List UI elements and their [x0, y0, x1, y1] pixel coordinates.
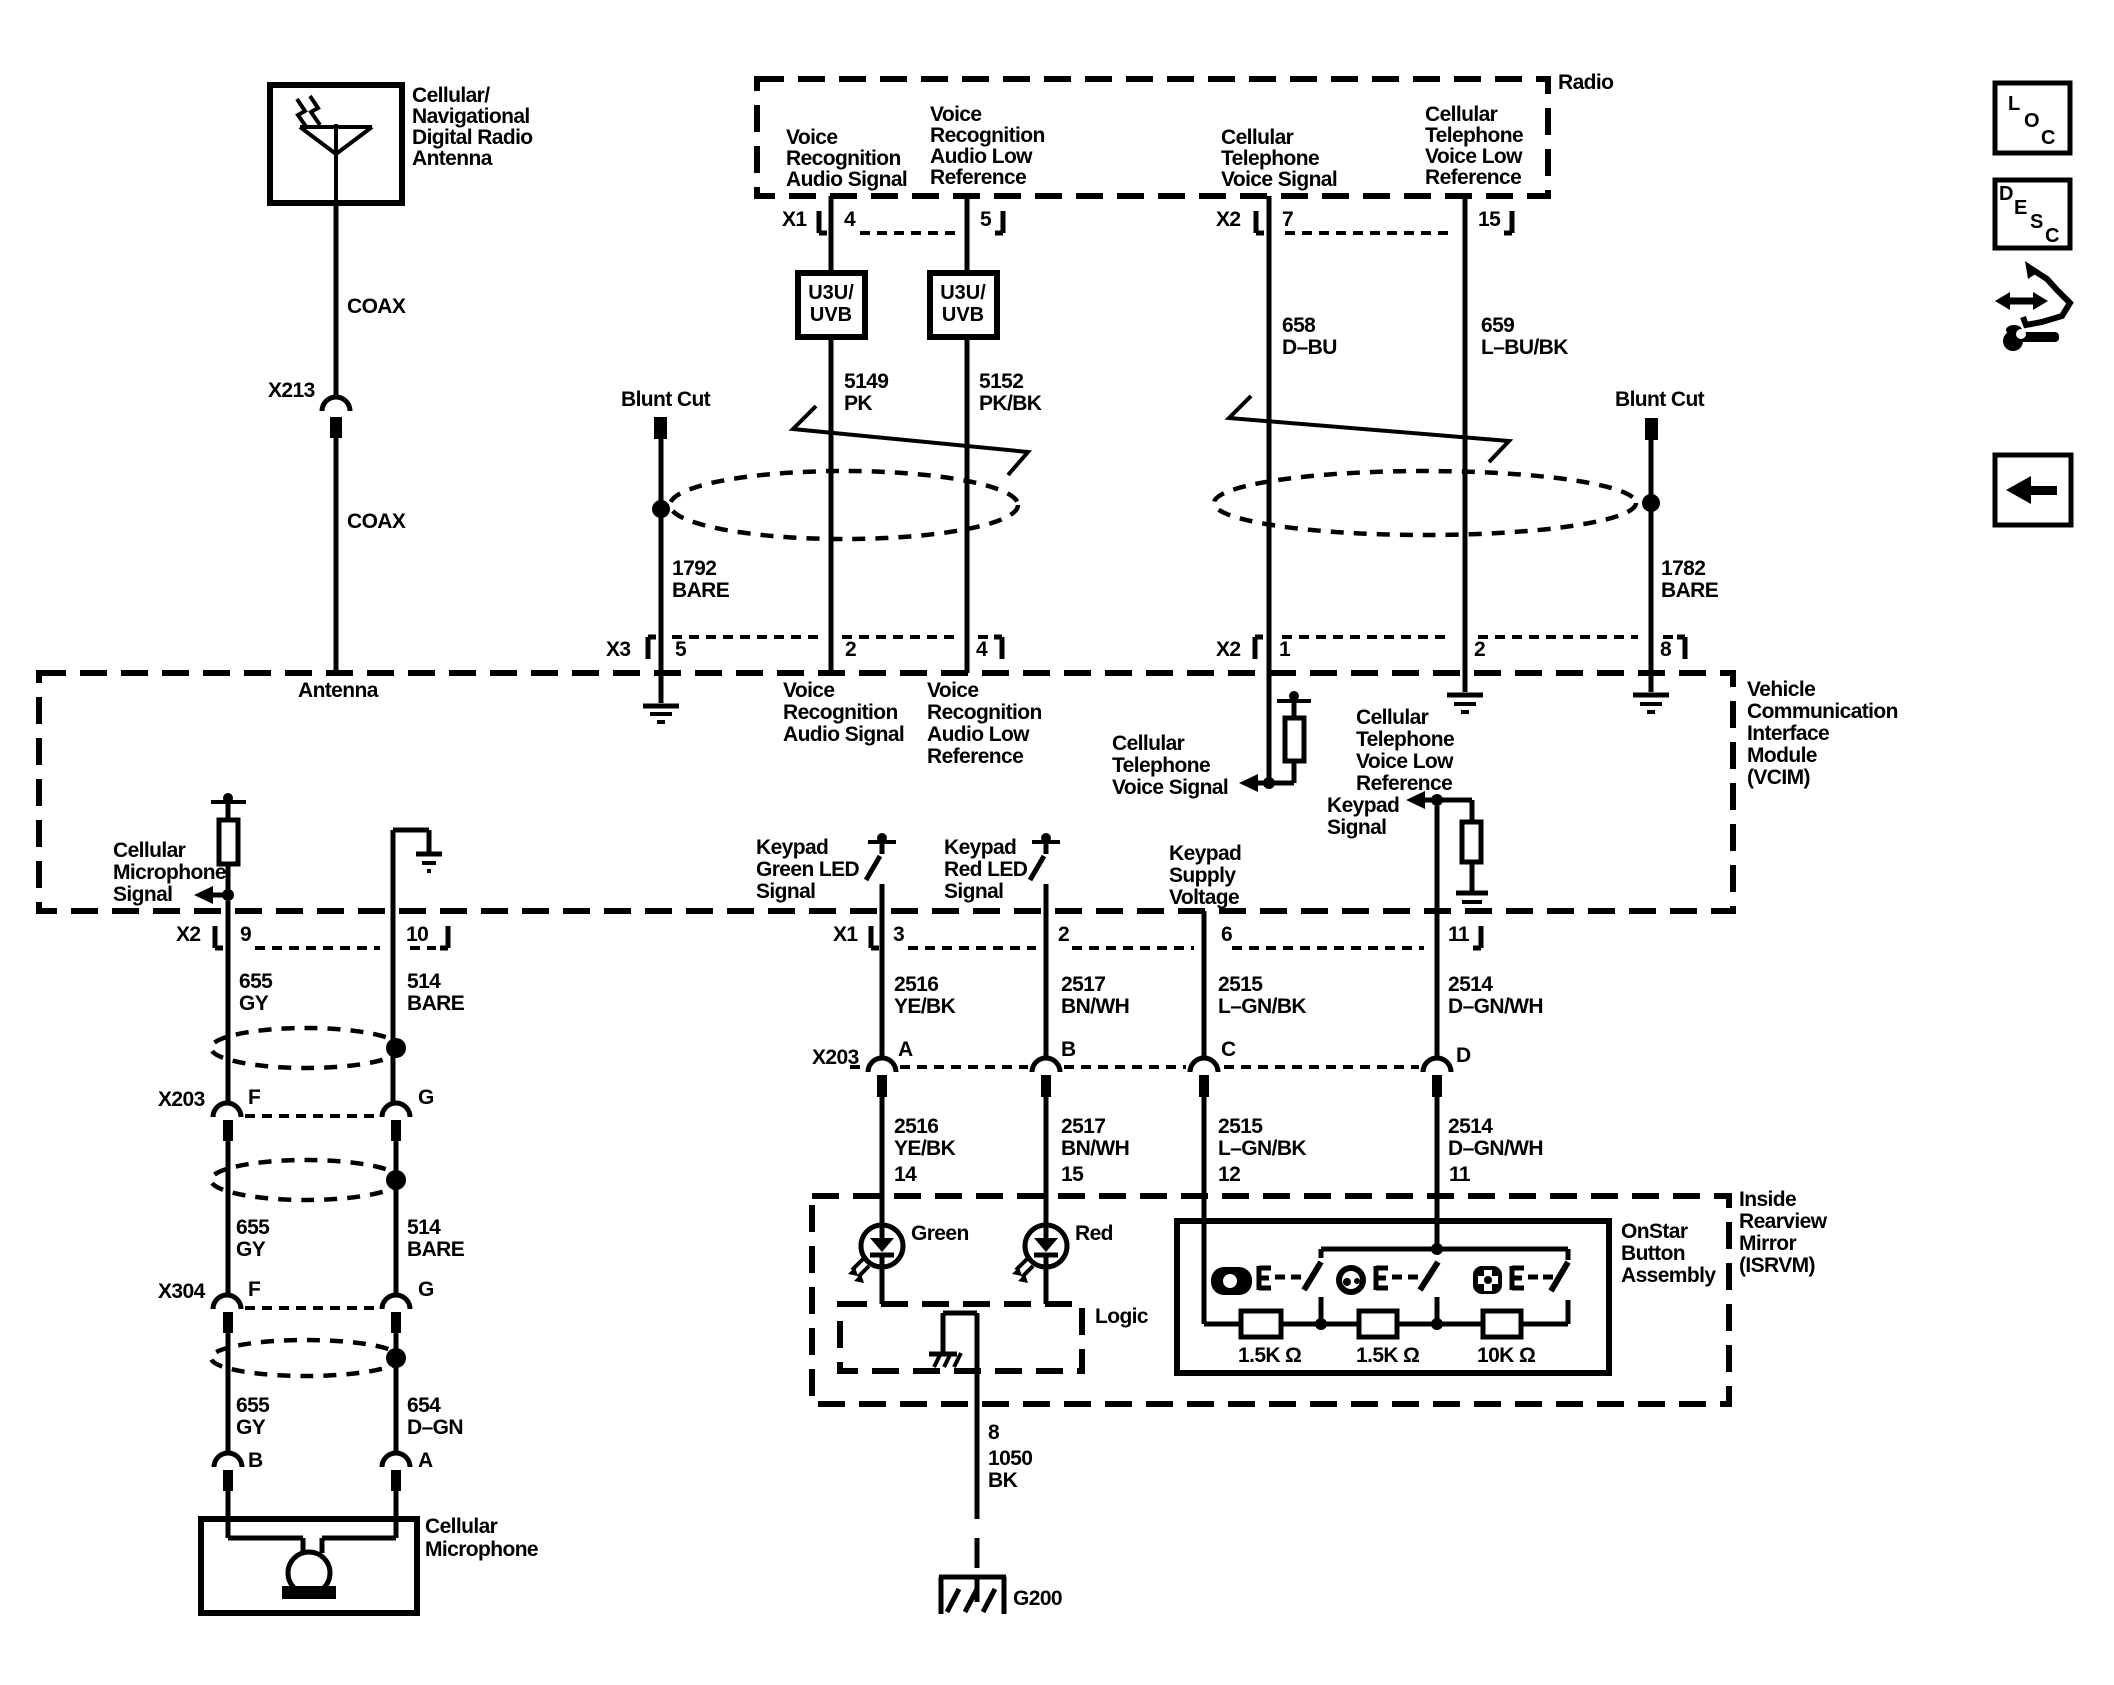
svg-text:1.5K: 1.5K [1238, 1344, 1280, 1367]
shield ellipse (left) [670, 471, 1018, 539]
svg-text:Voice Signal: Voice Signal [1221, 168, 1337, 191]
svg-text:S: S [2030, 211, 2043, 233]
wire 655 GY (VCIM X2-9 to X203-F) [228, 901, 273, 1103]
svg-text:1: 1 [1279, 638, 1291, 661]
connector row at microphone (pins B,A) [214, 1449, 433, 1491]
cellular microphone signal node: termination resistor and arrow [113, 793, 246, 906]
resistor 1.5K (switch 2) [1356, 1311, 1419, 1367]
wire 658 D-BU (radio X2-7 to VCIM X2-1) [1269, 196, 1337, 782]
switch: keypad green LED signal [756, 833, 896, 903]
termination resistor, cellular telephone voice signal node [1112, 691, 1311, 799]
shield ellipse 1 (microphone cable) [211, 1028, 406, 1068]
wire 1050 BK (logic to G200) [977, 1313, 1032, 1568]
svg-text:BARE: BARE [1661, 579, 1719, 602]
svg-text:G: G [418, 1278, 434, 1301]
svg-text:Microphone: Microphone [113, 861, 226, 884]
switch: keypad red LED signal [944, 833, 1060, 903]
svg-text:2514: 2514 [1448, 973, 1493, 996]
svg-text:X213: X213 [268, 379, 315, 402]
svg-text:Button: Button [1621, 1242, 1685, 1265]
svg-text:514: 514 [407, 1216, 441, 1239]
connector row X1 (VCIM pins 3,2,6,11) [833, 923, 1481, 948]
twisted pair marker (right) [1229, 396, 1509, 462]
connector X213 [268, 379, 350, 438]
svg-text:YE/BK: YE/BK [894, 1137, 956, 1160]
chassis ground in logic [929, 1313, 977, 1367]
svg-text:D: D [1999, 183, 2013, 205]
svg-text:Reference: Reference [1425, 166, 1521, 189]
LED red [1012, 1222, 1113, 1283]
svg-text:BARE: BARE [407, 992, 465, 1015]
wire 2516 YE/BK (VCIM X1-3 to X203-A) [882, 884, 956, 1058]
svg-text:14: 14 [894, 1163, 917, 1186]
svg-text:Voltage: Voltage [1169, 886, 1239, 909]
svg-text:F: F [248, 1278, 261, 1301]
svg-text:BARE: BARE [672, 579, 730, 602]
svg-text:A: A [418, 1449, 433, 1472]
svg-text:Radio: Radio [1558, 71, 1613, 94]
svg-text:F: F [248, 1086, 261, 1109]
svg-text:Voice: Voice [927, 679, 978, 702]
svg-text:2: 2 [1058, 923, 1069, 946]
wire 1782 BARE (drain, blunt cut to VCIM X2-8) [1642, 440, 1719, 692]
wire 514 BARE (VCIM X2-10 to X203-G) [393, 911, 465, 1103]
resistor 10K (switch 3) [1477, 1311, 1535, 1367]
svg-text:Digital Radio: Digital Radio [412, 126, 533, 149]
svg-text:1050: 1050 [988, 1447, 1032, 1470]
svg-text:659: 659 [1481, 314, 1514, 337]
svg-text:D–GN: D–GN [407, 1416, 463, 1439]
wire: ISRVM pin 11 into button assembly [1435, 1196, 1440, 1249]
svg-text:2: 2 [1474, 638, 1485, 661]
svg-text:7: 7 [1282, 208, 1293, 231]
svg-text:L: L [2008, 93, 2020, 115]
connector X203 row (pins A,B,C,D) [812, 1038, 1471, 1097]
svg-text:Signal: Signal [756, 880, 815, 903]
svg-text:8: 8 [1660, 638, 1672, 661]
svg-text:B: B [248, 1449, 263, 1472]
wire 2514 D-GN/WH (VCIM X1-11 to X203-D) [1437, 911, 1543, 1058]
svg-text:Blunt Cut: Blunt Cut [621, 388, 711, 411]
shield ellipse 2 (microphone cable) [211, 1160, 406, 1200]
ground G200 [939, 1577, 1062, 1614]
svg-text:Cellular: Cellular [113, 839, 186, 862]
svg-text:COAX: COAX [347, 510, 406, 533]
ground at VCIM X2-8 [1633, 695, 1669, 712]
wire LED green to logic [880, 1267, 885, 1304]
svg-text:Red: Red [1075, 1222, 1113, 1245]
svg-text:C: C [1221, 1038, 1236, 1061]
wire: keypad signal node to VCIM X1-11 [1435, 806, 1440, 911]
connector row X3 (VCIM pins 5,2,4) [606, 637, 1002, 661]
svg-text:YE/BK: YE/BK [894, 995, 956, 1018]
svg-text:BK: BK [988, 1469, 1018, 1492]
svg-text:Telephone: Telephone [1221, 147, 1319, 170]
svg-text:Module: Module [1747, 744, 1817, 767]
svg-text:1.5K: 1.5K [1356, 1344, 1398, 1367]
svg-text:X2: X2 [176, 923, 201, 946]
svg-text:15: 15 [1061, 1163, 1084, 1186]
resistor 1.5K (switch 1) [1238, 1311, 1301, 1367]
connector row X2 (VCIM pins 9,10) [176, 923, 448, 948]
svg-text:Navigational: Navigational [412, 105, 530, 128]
svg-text:5152: 5152 [979, 370, 1023, 393]
wire 1792 BARE (drain, blunt cut to VCIM X3-5) [652, 439, 730, 703]
svg-text:Cellular/: Cellular/ [412, 84, 490, 107]
svg-text:(ISRVM): (ISRVM) [1739, 1254, 1815, 1277]
svg-text:Recognition: Recognition [783, 701, 898, 724]
svg-text:Cellular: Cellular [425, 1515, 498, 1538]
LED green [848, 1222, 969, 1283]
svg-text:Voice Low: Voice Low [1425, 145, 1523, 168]
svg-text:Cellular: Cellular [1425, 103, 1498, 126]
svg-text:Audio Low: Audio Low [930, 145, 1033, 168]
wire 5152 PK/BK (radio X1-5 to VCIM X3-4) [967, 196, 1042, 673]
pushbutton switch 1 (phone) [1211, 1262, 1327, 1330]
svg-text:Keypad: Keypad [944, 836, 1016, 859]
svg-text:12: 12 [1218, 1163, 1240, 1186]
svg-text:Cellular: Cellular [1221, 126, 1294, 149]
svg-text:X3: X3 [606, 638, 631, 661]
svg-text:2: 2 [845, 638, 856, 661]
wire 2514 D-GN/WH (X203-D to ISRVM 11) [1437, 1097, 1543, 1196]
wire 655 GY (X304-F to microphone B) [228, 1333, 270, 1453]
svg-text:Red LED: Red LED [944, 858, 1028, 881]
svg-text:Vehicle: Vehicle [1747, 678, 1815, 701]
label: Voice Recognition Audio Low Reference (VCIM) [927, 679, 1042, 768]
svg-text:Voice: Voice [930, 103, 981, 126]
label: Keypad Supply Voltage (VCIM) [1169, 842, 1241, 909]
label: Voice Recognition Audio Signal (radio) [786, 126, 907, 191]
VCIM box (Vehicle Communication Interface Module) [39, 673, 1898, 911]
Radio box [757, 71, 1613, 196]
resistor bus (bottom) [1204, 1300, 1568, 1324]
svg-text:655: 655 [236, 1216, 270, 1239]
svg-text:Recognition: Recognition [930, 124, 1045, 147]
label: Cellular Telephone Voice Signal (radio) [1221, 126, 1337, 191]
connector row X2 (VCIM pins 1,2,8) [1216, 637, 1685, 661]
wire 514 BARE (X203-G to X304-G) [396, 1141, 465, 1294]
svg-text:5: 5 [675, 638, 687, 661]
wire 2517 BN/WH (VCIM X1-2 to X203-B) [1046, 884, 1129, 1058]
svg-text:654: 654 [407, 1394, 441, 1417]
svg-text:11: 11 [1449, 1163, 1471, 1186]
svg-text:L–BU/BK: L–BU/BK [1481, 336, 1568, 359]
svg-text:9: 9 [240, 923, 251, 946]
connector row X1 (radio pins 4,5) [782, 208, 1003, 233]
wire 2516 YE/BK (X203-A to ISRVM 14) [882, 1097, 956, 1225]
connector row X2 (radio pins 7,15) [1216, 208, 1512, 233]
svg-text:Voice: Voice [783, 679, 834, 702]
svg-text:514: 514 [407, 970, 441, 993]
svg-text:Logic: Logic [1095, 1305, 1149, 1328]
svg-text:2516: 2516 [894, 973, 938, 996]
svg-text:Keypad: Keypad [756, 836, 828, 859]
blunt cut (right) [1615, 388, 1705, 440]
svg-text:Antenna: Antenna [298, 679, 379, 702]
svg-text:Keypad: Keypad [1327, 794, 1399, 817]
label: Cellular Telephone Voice Low Reference (radio) [1425, 103, 1523, 189]
switch common line (to pin 11) [1321, 1243, 1568, 1260]
OnStar button assembly box [1177, 1220, 1716, 1373]
svg-text:OnStar: OnStar [1621, 1220, 1688, 1243]
svg-text:2516: 2516 [894, 1115, 938, 1138]
svg-text:G200: G200 [1013, 1587, 1062, 1610]
svg-text:5149: 5149 [844, 370, 888, 393]
svg-text:X2: X2 [1216, 208, 1241, 231]
svg-text:C: C [2045, 225, 2059, 247]
wire COAX antenna to X213 [336, 203, 406, 398]
svg-text:PK: PK [844, 392, 872, 415]
svg-text:Ω: Ω [1519, 1344, 1535, 1367]
icon connector repair (double arrow and wrench) [1995, 261, 2070, 351]
wire 654 D-GN (X304-G to microphone A) [396, 1333, 463, 1453]
svg-text:4: 4 [844, 208, 856, 231]
svg-text:Green: Green [911, 1222, 969, 1245]
svg-text:Telephone: Telephone [1356, 728, 1454, 751]
label: Voice Recognition Audio Low Reference (radio) [930, 103, 1045, 189]
svg-text:Audio Signal: Audio Signal [783, 723, 904, 746]
svg-text:Rearview: Rearview [1739, 1210, 1828, 1233]
svg-text:11: 11 [1448, 923, 1470, 946]
svg-text:Supply: Supply [1169, 864, 1236, 887]
svg-text:Recognition: Recognition [786, 147, 901, 170]
svg-text:1792: 1792 [672, 557, 716, 580]
svg-text:Antenna: Antenna [412, 147, 493, 170]
svg-text:U3U/: U3U/ [940, 282, 986, 304]
svg-text:Green LED: Green LED [756, 858, 860, 881]
twisted pair marker (left) [793, 406, 1028, 475]
svg-text:2515: 2515 [1218, 973, 1263, 996]
keypad signal node: resistor to ground and arrow [1327, 791, 1488, 910]
wire 2515 L-GN/BK (X203-C to ISRVM 12) [1204, 1097, 1306, 1196]
svg-text:PK/BK: PK/BK [979, 392, 1042, 415]
svg-text:X203: X203 [158, 1088, 205, 1111]
wire 5149 PK (radio X1-4 to VCIM X3-2) [831, 196, 888, 673]
svg-text:2517: 2517 [1061, 1115, 1105, 1138]
icon LOC [1995, 83, 2070, 153]
shield ellipse 3 (microphone cable) [211, 1340, 406, 1376]
wire 2515 L-GN/BK (VCIM X1-6 to X203-C) [1204, 911, 1306, 1058]
connector X203 row (pins F,G) [158, 1086, 434, 1141]
ground at VCIM X2-2 [1447, 695, 1483, 712]
svg-text:Communication: Communication [1747, 700, 1898, 723]
svg-text:10K: 10K [1477, 1344, 1514, 1367]
svg-text:Audio Signal: Audio Signal [786, 168, 907, 191]
svg-text:UVB: UVB [942, 304, 984, 326]
svg-text:Reference: Reference [927, 745, 1023, 768]
svg-text:Interface: Interface [1747, 722, 1829, 745]
svg-text:Mirror: Mirror [1739, 1232, 1797, 1255]
svg-text:G: G [418, 1086, 434, 1109]
svg-text:X304: X304 [158, 1280, 206, 1303]
svg-text:2517: 2517 [1061, 973, 1105, 996]
svg-text:L–GN/BK: L–GN/BK [1218, 1137, 1306, 1160]
svg-text:GY: GY [236, 1416, 266, 1439]
svg-text:Assembly: Assembly [1621, 1264, 1716, 1287]
svg-text:Recognition: Recognition [927, 701, 1042, 724]
svg-text:3: 3 [893, 923, 904, 946]
svg-text:UVB: UVB [810, 304, 852, 326]
svg-text:Signal: Signal [944, 880, 1003, 903]
svg-text:Keypad: Keypad [1169, 842, 1241, 865]
svg-text:GY: GY [236, 1238, 266, 1261]
logic box [840, 1304, 1149, 1371]
svg-text:2514: 2514 [1448, 1115, 1493, 1138]
svg-text:C: C [2041, 127, 2055, 149]
svg-text:U3U/: U3U/ [808, 282, 854, 304]
svg-text:Cellular: Cellular [1112, 732, 1185, 755]
svg-text:5: 5 [980, 208, 992, 231]
svg-text:Microphone: Microphone [425, 1538, 538, 1561]
label: Antenna (VCIM input) [298, 679, 379, 702]
svg-text:A: A [898, 1038, 913, 1061]
svg-text:Voice Signal: Voice Signal [1112, 776, 1228, 799]
wire COAX X213 to VCIM antenna input [336, 438, 406, 673]
connector X304 row (pins F,G) [158, 1278, 434, 1333]
svg-text:GY: GY [239, 992, 269, 1015]
label: Voice Recognition Audio Signal (VCIM) [783, 679, 904, 746]
svg-text:Telephone: Telephone [1112, 754, 1210, 777]
svg-text:BN/WH: BN/WH [1061, 995, 1129, 1018]
svg-text:Inside: Inside [1739, 1188, 1796, 1211]
svg-text:COAX: COAX [347, 295, 406, 318]
svg-text:BN/WH: BN/WH [1061, 1137, 1129, 1160]
svg-text:X1: X1 [782, 208, 807, 231]
svg-text:4: 4 [976, 638, 988, 661]
svg-text:L–GN/BK: L–GN/BK [1218, 995, 1306, 1018]
wire 655 GY (X203-F to X304-F) [228, 1141, 270, 1294]
svg-text:Cellular: Cellular [1356, 706, 1429, 729]
svg-text:1782: 1782 [1661, 557, 1705, 580]
wire LED red to logic [1044, 1267, 1049, 1304]
wire 2517 BN/WH (X203-B to ISRVM 15) [1046, 1097, 1129, 1225]
splice pack U3U/UVB (right) [930, 273, 997, 337]
svg-text:Audio Low: Audio Low [927, 723, 1030, 746]
icon back arrow [1995, 455, 2071, 525]
svg-text:6: 6 [1221, 923, 1232, 946]
svg-text:Voice Low: Voice Low [1356, 750, 1454, 773]
svg-text:(VCIM): (VCIM) [1747, 766, 1810, 789]
svg-text:D–BU: D–BU [1282, 336, 1337, 359]
svg-text:2515: 2515 [1218, 1115, 1263, 1138]
svg-text:8: 8 [988, 1421, 1000, 1444]
svg-text:Signal: Signal [1327, 816, 1386, 839]
svg-text:658: 658 [1282, 314, 1316, 337]
svg-text:10: 10 [406, 923, 428, 946]
svg-text:D–GN/WH: D–GN/WH [1448, 995, 1543, 1018]
svg-text:X2: X2 [1216, 638, 1241, 661]
wire 659 L-BU/BK (radio X2-15 to VCIM X2-2) [1465, 196, 1568, 692]
svg-text:D–GN/WH: D–GN/WH [1448, 1137, 1543, 1160]
ground branch from VCIM X2-10 [393, 830, 442, 911]
pushbutton switch 2 (OnStar) [1339, 1262, 1443, 1330]
svg-text:Signal: Signal [113, 883, 172, 906]
label: Cellular Telephone Voice Low Reference (VCIM) [1356, 706, 1454, 795]
svg-text:Reference: Reference [1356, 772, 1452, 795]
svg-text:Reference: Reference [930, 166, 1026, 189]
ISRVM box (Inside Rearview Mirror) [812, 1188, 1828, 1404]
ground at VCIM X3-5 [643, 706, 679, 722]
splice pack U3U/UVB (left) [798, 273, 865, 337]
shield ellipse (right) [1214, 471, 1636, 535]
svg-text:E: E [2014, 197, 2027, 219]
svg-text:Blunt Cut: Blunt Cut [1615, 388, 1705, 411]
svg-text:Ω: Ω [1285, 1344, 1301, 1367]
svg-text:655: 655 [239, 970, 273, 993]
svg-text:BARE: BARE [407, 1238, 465, 1261]
svg-text:Voice: Voice [786, 126, 837, 149]
svg-text:655: 655 [236, 1394, 270, 1417]
pushbutton switch 3 (emergency) [1473, 1262, 1568, 1294]
cellular microphone box [201, 1491, 538, 1613]
svg-text:D: D [1456, 1044, 1471, 1067]
svg-text:Ω: Ω [1403, 1344, 1419, 1367]
blunt cut (left) [621, 388, 711, 439]
svg-text:Telephone: Telephone [1425, 124, 1523, 147]
icon DESC [1995, 180, 2070, 248]
wire: ISRVM pin 12 into button assembly [1202, 1196, 1207, 1324]
svg-text:15: 15 [1478, 208, 1501, 231]
svg-text:O: O [2024, 110, 2040, 132]
svg-text:X1: X1 [833, 923, 858, 946]
antenna assembly: Cellular/Navigational Digital Radio Antenna [270, 84, 533, 203]
svg-text:B: B [1061, 1038, 1076, 1061]
